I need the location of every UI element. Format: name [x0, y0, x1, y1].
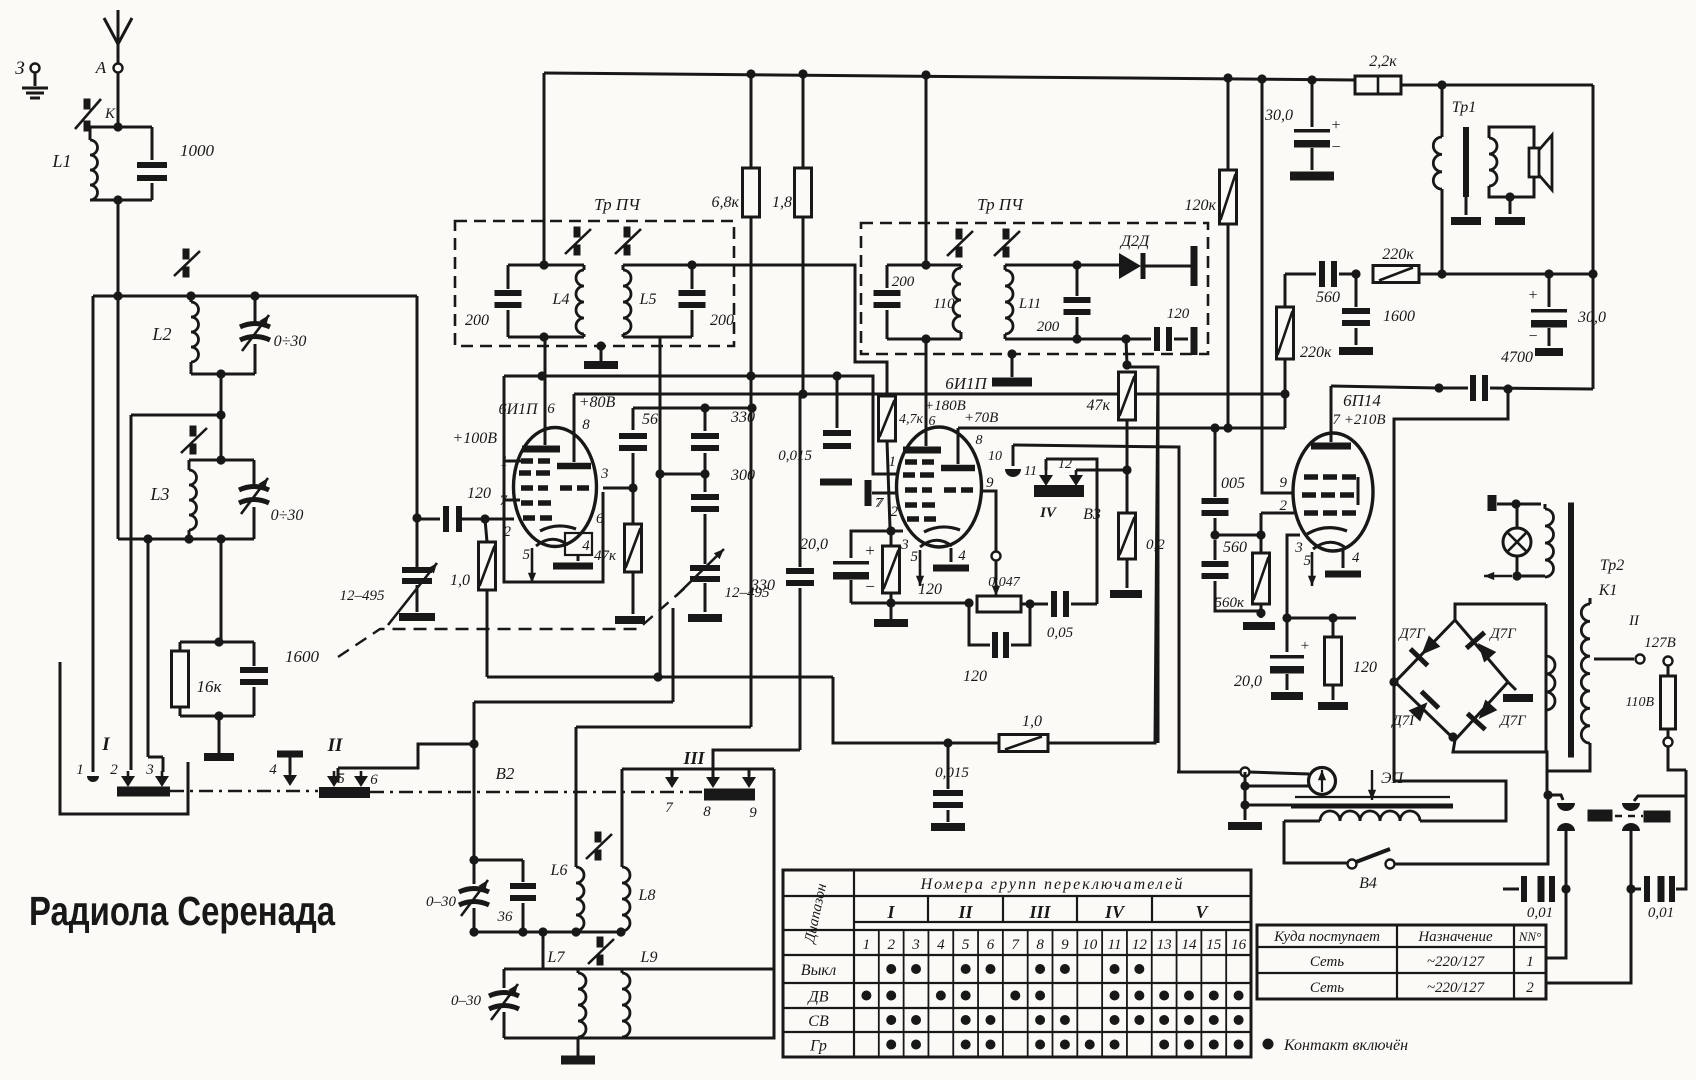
svg-text:З: З [15, 58, 24, 79]
wire L3 to 16k tank [220, 539, 223, 642]
svg-text:К: К [104, 106, 116, 122]
wire switch III contact 9 riser [622, 768, 774, 771]
speaker [1529, 148, 1539, 177]
svg-text:16: 16 [1231, 937, 1247, 953]
capacitor 330 [704, 408, 707, 431]
capacitor 0,01 (left) [1503, 888, 1519, 891]
svg-text:120: 120 [963, 668, 987, 685]
coil L6 [575, 727, 578, 867]
switch table [783, 870, 1251, 1057]
svg-text:III: III [1028, 902, 1051, 922]
tube3 cathode arc [1307, 528, 1347, 534]
svg-text:В3: В3 [1083, 506, 1101, 523]
mains table [1257, 925, 1546, 999]
svg-text:3: 3 [600, 466, 609, 482]
bridge ground [1508, 682, 1516, 690]
svg-text:2: 2 [887, 937, 895, 953]
svg-text:6: 6 [987, 937, 995, 953]
svg-text:L9: L9 [640, 949, 658, 966]
diode Д2Д [1119, 253, 1141, 279]
variable capacitor 0-30 (band) [459, 889, 489, 893]
svg-text:Куда поступает: Куда поступает [1273, 929, 1380, 945]
svg-text:120к: 120к [1185, 197, 1217, 214]
wire lower band bottom [504, 1037, 622, 1040]
dial cord tap [1240, 800, 1249, 809]
svg-text:6: 6 [596, 511, 604, 527]
svg-text:L6: L6 [550, 862, 568, 879]
wire pin10 bus [1013, 445, 1179, 772]
switch В3 contacts 11 12 [1045, 459, 1048, 470]
svg-text:11: 11 [1108, 937, 1122, 953]
secondary tap 127В [1594, 658, 1634, 661]
svg-text:III: III [682, 748, 705, 768]
tube2 grid rows [905, 459, 917, 465]
resistor 120к [1227, 78, 1230, 170]
resistor 1,0 (cathode) [485, 519, 487, 542]
coil L8 [621, 769, 624, 867]
svg-text:15: 15 [1206, 937, 1222, 953]
wire grid tube2 y376 riser [837, 376, 899, 474]
switch В4 [1348, 860, 1357, 869]
wire to switch В4 [1284, 821, 1348, 863]
svg-text:4: 4 [582, 538, 590, 554]
resistor 47к [625, 524, 642, 572]
coil L7 [577, 969, 580, 973]
switch group II contact 4 ground [277, 751, 303, 758]
svg-text:10: 10 [1082, 937, 1098, 953]
ground under 16k tank [218, 716, 221, 753]
switch group I frame [60, 662, 188, 814]
svg-text:200: 200 [710, 312, 734, 329]
svg-text:8: 8 [582, 417, 590, 433]
svg-text:20,0: 20,0 [800, 536, 828, 553]
svg-text:0,015: 0,015 [778, 448, 812, 464]
svg-text:L7: L7 [547, 949, 566, 966]
trimmer L6-L8 [595, 832, 602, 843]
svg-text:3: 3 [1294, 540, 1303, 556]
wire 0,01 left to mains 1 [1546, 889, 1566, 958]
svg-text:ДВ: ДВ [807, 989, 829, 1006]
svg-text:12: 12 [1058, 457, 1072, 472]
ground lower band [577, 1038, 580, 1056]
capacitor 36 [522, 860, 525, 882]
svg-text:0,01: 0,01 [1527, 905, 1553, 921]
tube1 triode grid right [560, 485, 572, 491]
svg-text:36: 36 [497, 909, 514, 925]
svg-text:1: 1 [863, 937, 871, 953]
top rail right [1401, 84, 1593, 87]
svg-text:3: 3 [900, 537, 909, 553]
svg-text:47к: 47к [1087, 397, 1111, 414]
svg-text:+180В: +180В [924, 398, 966, 414]
capacitor 200 (L4) [507, 265, 510, 289]
antenna А [117, 10, 120, 68]
wire pin3 to divider [603, 487, 633, 490]
svg-text:5: 5 [962, 937, 970, 953]
tube2 cathode arc [924, 527, 960, 532]
svg-text:4,7к: 4,7к [899, 412, 924, 427]
svg-text:560к: 560к [1214, 595, 1245, 611]
svg-text:8: 8 [1036, 937, 1044, 953]
svg-text:L3: L3 [149, 484, 169, 504]
tube2 screen bar [941, 465, 975, 472]
svg-text:NN°: NN° [1518, 929, 1542, 944]
svg-text:L1: L1 [51, 151, 71, 171]
selector contact left [1557, 803, 1575, 811]
capacitor 1600 (AVC) [253, 642, 256, 666]
coil L4 [508, 264, 584, 267]
wire pin9 to pot [982, 491, 996, 552]
capacitor 0,015 (grid tube2) [836, 376, 839, 428]
svg-text:Тр ПЧ: Тр ПЧ [977, 195, 1024, 214]
svg-text:IV: IV [1104, 902, 1126, 922]
bridge output to filter [1287, 617, 1356, 620]
svg-text:0÷30: 0÷30 [271, 507, 304, 524]
Тр2 core [1568, 503, 1574, 758]
svg-text:+: + [1301, 638, 1309, 654]
secondary resistor 110В [1664, 657, 1673, 666]
wire cap300 tap [660, 473, 705, 476]
switch К (antenna trimmer) [117, 73, 120, 127]
wire AF bus [833, 677, 999, 743]
ground 0,2 [1110, 590, 1142, 598]
diode Д7Г bottom-right [1455, 682, 1508, 740]
svg-text:220к: 220к [1300, 344, 1332, 361]
svg-text:3: 3 [911, 937, 920, 953]
resistor 16к tank [180, 641, 254, 644]
svg-text:Тр2: Тр2 [1600, 557, 1625, 574]
coil L2 [190, 296, 193, 302]
svg-text:2: 2 [1526, 980, 1534, 996]
wire L5 bottom down [659, 337, 662, 677]
svg-text:6И1П: 6И1П [945, 374, 988, 393]
svg-text:5: 5 [911, 549, 919, 565]
wire 0,05 to detector box [1046, 459, 1097, 604]
gang dashed link [338, 587, 686, 657]
lamp winding [1544, 504, 1547, 509]
svg-text:0,015: 0,015 [935, 765, 969, 781]
diode Д7Г top-left [1395, 620, 1455, 682]
wire y702 branch [473, 702, 476, 744]
resistor 1,8 [802, 74, 805, 168]
wire band cap bus [473, 744, 476, 884]
tuning indicator [1309, 768, 1336, 795]
svg-text:V: V [1195, 902, 1209, 922]
trimmer L7-L9 [597, 937, 604, 948]
tube 6П14 U3 [1293, 433, 1373, 551]
electrolytic 30,0 (B+ filter) [1311, 80, 1314, 127]
wire osc tank right [416, 296, 419, 567]
wire antenna tank to band switch [117, 200, 120, 539]
plate capacitor (diode load) [1191, 246, 1198, 286]
svg-text:4: 4 [937, 937, 945, 953]
capacitor 005 [1214, 428, 1217, 497]
wire anode tube3 bus [1331, 386, 1439, 388]
svg-text:56: 56 [642, 411, 658, 428]
wire L3 bottom bus [118, 538, 254, 541]
svg-text:0÷30: 0÷30 [274, 333, 307, 350]
wire pin9 bus tube3 [1262, 79, 1294, 493]
svg-text:Д7Г: Д7Г [1488, 626, 1517, 642]
svg-text:II: II [327, 735, 343, 756]
tube3 pin4 bar [1342, 550, 1345, 568]
svg-text:9: 9 [749, 805, 757, 821]
wire 0,01 right to mains 2 [1546, 889, 1631, 983]
svg-text:11: 11 [1024, 464, 1037, 479]
svg-text:330: 330 [730, 409, 755, 426]
section dash-dot line [170, 790, 318, 792]
svg-text:+: + [1331, 117, 1340, 134]
svg-text:В4: В4 [1359, 875, 1377, 892]
potentiometer 0,047 [977, 596, 1021, 612]
trimmer L10 [956, 229, 963, 240]
capacitor plate pin7 tube2 [865, 480, 872, 506]
svg-text:9: 9 [986, 475, 994, 491]
svg-text:200: 200 [1037, 319, 1060, 335]
wire detector to AVC [1126, 339, 1127, 365]
svg-text:Тр1: Тр1 [1452, 99, 1477, 116]
tube2 pin4 bar [950, 548, 953, 562]
svg-text:4: 4 [958, 548, 966, 564]
top B+ rail [544, 73, 1355, 80]
wire switch II to band coils [337, 768, 340, 782]
tube1 anode bar [522, 446, 560, 453]
svg-text:+100В: +100В [452, 430, 497, 447]
capacitor 1000 [151, 127, 154, 160]
svg-text:Сеть: Сеть [1310, 954, 1344, 970]
ground tube2 cathode [874, 619, 908, 627]
svg-text:47к: 47к [594, 548, 617, 564]
ground 47k chain [615, 616, 645, 624]
capacitor 1600 (tone) [1355, 274, 1358, 307]
svg-text:А: А [95, 58, 107, 77]
tube2 pin5 arrow [919, 550, 922, 586]
svg-text:1,0: 1,0 [1022, 713, 1042, 730]
svg-text:−: − [1331, 139, 1340, 156]
tube1 pin4 bar [577, 555, 580, 561]
svg-text:4700: 4700 [1501, 349, 1533, 366]
Тр2 primary coil [1546, 656, 1555, 710]
svg-text:127В: 127В [1644, 635, 1676, 651]
svg-text:L5: L5 [639, 291, 657, 308]
wire meter lower [1240, 781, 1249, 790]
Тр2 secondary [1589, 598, 1592, 604]
svg-text:0–30: 0–30 [451, 993, 482, 1009]
wire screen bus y394 [574, 394, 1285, 428]
capacitor 200 (L5) [691, 265, 694, 289]
capacitor 300 [691, 494, 719, 500]
tube2 triode grid right [944, 487, 956, 493]
bridge box [1455, 604, 1546, 620]
svg-text:6П14: 6П14 [1343, 391, 1381, 410]
wire B+ down to L4 [543, 73, 546, 265]
svg-text:−: − [1528, 328, 1537, 345]
capacitor 120 (pot bypass) [969, 603, 990, 645]
svg-text:L11: L11 [1018, 296, 1041, 312]
wire cathode bus [851, 602, 969, 605]
IF transformer ТрПЧ1 dashed box [455, 221, 734, 346]
svg-text:30,0: 30,0 [1264, 107, 1293, 124]
svg-text:120: 120 [467, 485, 491, 502]
svg-text:0,047: 0,047 [988, 575, 1021, 590]
svg-text:L2: L2 [151, 324, 171, 344]
wire coil bottom bus [474, 931, 622, 934]
svg-text:560: 560 [1223, 539, 1247, 556]
svg-text:1: 1 [76, 762, 84, 778]
svg-text:0,05: 0,05 [1047, 625, 1074, 641]
svg-text:I: I [886, 902, 895, 922]
coil L11 [1005, 264, 1128, 267]
svg-text:ЭП: ЭП [1381, 770, 1404, 787]
svg-text:Выкл: Выкл [801, 962, 836, 979]
section dash-dot line II-III [370, 791, 702, 793]
svg-text:2: 2 [504, 524, 512, 540]
electrolytic 20,0 [851, 531, 891, 558]
svg-text:Д2Д: Д2Д [1119, 233, 1150, 250]
tube3 beam plate [1357, 477, 1360, 505]
variable capacitor 0-30 (L2) [254, 296, 257, 322]
ground between L4 L5 [596, 341, 605, 350]
coil L1 [90, 126, 152, 129]
svg-text:6,8к: 6,8к [712, 194, 740, 211]
svg-text:5: 5 [1304, 553, 1312, 569]
svg-text:К1: К1 [1598, 582, 1618, 599]
tube1 screen bar [557, 463, 591, 470]
svg-text:20,0: 20,0 [1234, 673, 1262, 690]
svg-text:I: I [101, 734, 110, 755]
tube2 anode bar [903, 447, 941, 454]
trimmer L11 [1003, 229, 1010, 240]
dial lamp [1503, 528, 1531, 556]
resistor 1,0 (AF) [999, 735, 1048, 752]
wire grid2 tube3 [1261, 512, 1294, 515]
wire contact 8 riser [713, 750, 800, 777]
svg-text:330: 330 [750, 577, 775, 594]
ground 560к [1243, 622, 1275, 630]
svg-text:1600: 1600 [285, 647, 320, 666]
svg-text:Номера групп переключателей: Номера групп переключателей [920, 876, 1185, 893]
wire lower band bus [542, 932, 545, 969]
ground terminal З [31, 64, 40, 73]
tube3 cathode wire [1287, 535, 1300, 618]
trimmer above L2 [183, 249, 190, 260]
ground below IF transformer 2 [1007, 349, 1016, 358]
svg-text:8: 8 [976, 433, 983, 448]
svg-text:4: 4 [1352, 550, 1360, 566]
coil L10 [887, 264, 961, 267]
wire feedback to power [1394, 389, 1508, 781]
svg-text:Д7Г: Д7Г [1390, 713, 1419, 729]
Тр1 secondary and speaker [1489, 127, 1534, 197]
svg-text:120: 120 [918, 581, 942, 598]
svg-text:3: 3 [145, 762, 154, 778]
resistor 220к horizontal [1373, 266, 1419, 283]
resistor 220к vertical [1284, 274, 1287, 307]
svg-text:2: 2 [110, 762, 118, 778]
svg-text:4: 4 [269, 762, 277, 778]
trimmer above L3 [190, 426, 197, 437]
svg-text:Сеть: Сеть [1310, 980, 1344, 996]
svg-text:~220/127: ~220/127 [1427, 980, 1486, 996]
right rail down [1592, 85, 1595, 389]
svg-text:L8: L8 [638, 887, 656, 904]
tube1 pin4 box [565, 533, 592, 555]
svg-text:6: 6 [370, 772, 378, 788]
tube1 grid rows [521, 458, 533, 464]
svg-text:−: − [865, 577, 875, 596]
capacitor 560 (tone) [1285, 273, 1316, 276]
svg-text:1,0: 1,0 [450, 572, 470, 589]
bridge bottom to selector [1448, 732, 1457, 741]
svg-text:0–30: 0–30 [426, 894, 457, 910]
svg-text:2,2к: 2,2к [1369, 53, 1397, 70]
svg-text:Д7Г: Д7Г [1397, 626, 1426, 642]
tube1 cathode arc [540, 526, 576, 531]
resistor 560к [1215, 534, 1261, 537]
capacitor 120 (detector) [1126, 338, 1151, 341]
wire anode bus y376 [504, 375, 873, 378]
tube1 pin5 arrow [531, 548, 534, 583]
wire tube1 grid stubs [504, 460, 521, 463]
svg-text:В2: В2 [496, 764, 515, 783]
svg-text:12–495: 12–495 [340, 588, 386, 604]
ground dial [1228, 822, 1262, 830]
tube2 anode wire [925, 339, 928, 446]
capacitor 200 (L11) [1076, 265, 1079, 296]
svg-text:Назначение: Назначение [1417, 929, 1493, 945]
wire L2 tap [220, 374, 223, 460]
coil L9 [621, 969, 624, 973]
svg-text:+70В: +70В [964, 410, 998, 426]
tube 6И1П U2 [897, 427, 982, 547]
svg-text:IV: IV [1039, 505, 1058, 521]
selector node [1543, 790, 1552, 799]
svg-text:10: 10 [988, 449, 1002, 464]
wire B+ out [1442, 273, 1593, 276]
pin10 stub [1012, 445, 1015, 466]
resistor 4,7к [879, 396, 896, 441]
svg-text:200: 200 [465, 312, 489, 329]
trimmer L5 [624, 227, 631, 238]
IF transformer ТрПЧ2 dashed box [861, 223, 1208, 354]
wire contact 12 to AVC [1076, 469, 1127, 472]
Тр1 core [1463, 127, 1469, 197]
svg-text:II: II [957, 902, 973, 922]
svg-text:220к: 220к [1382, 246, 1414, 263]
svg-text:30,0: 30,0 [1577, 309, 1606, 326]
electrolytic 30,0 (output) [1548, 274, 1551, 307]
bridge left node [1389, 677, 1398, 686]
svg-text:8: 8 [703, 804, 711, 820]
tube3 grid rows [1304, 474, 1318, 480]
tube 6И1П U1 [514, 428, 597, 547]
resistor 47к (AVC) [1119, 372, 1136, 420]
resistor 6,8к [750, 74, 753, 168]
svg-text:1: 1 [501, 454, 509, 470]
svg-text:110В: 110В [1625, 695, 1654, 710]
svg-text:1000: 1000 [180, 141, 215, 160]
wire to switch I contact 2 [131, 414, 221, 417]
diode Д7Г top-right [1455, 620, 1508, 682]
ЭП pointer [1371, 770, 1373, 800]
lamp tap arrow [1512, 571, 1521, 580]
svg-text:120: 120 [1167, 306, 1190, 322]
coupling capacitor (anode) [1470, 375, 1476, 401]
electrolytic 20,0 (bias) [1286, 618, 1289, 652]
svg-text:L4: L4 [552, 291, 570, 308]
wire bottom bus y677 [487, 676, 833, 679]
svg-text:2: 2 [1280, 498, 1288, 514]
